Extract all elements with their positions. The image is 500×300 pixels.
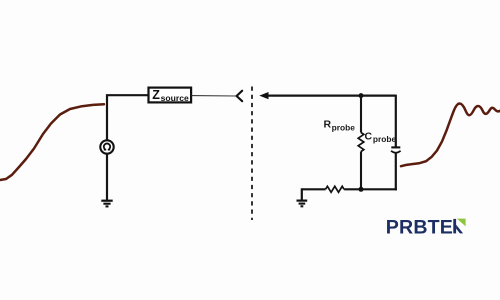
wire: Cprobe upper lead <box>395 95 397 147</box>
impedance Zsource (box) <box>149 88 192 103</box>
svg-text:source: source <box>161 93 189 103</box>
ground (left) <box>101 201 112 207</box>
probe input arrow (filled head) <box>259 92 268 99</box>
logo K green arm <box>457 219 466 227</box>
svg-text:Z: Z <box>152 88 160 102</box>
svg-text:R: R <box>324 119 332 131</box>
wire: right ground stub <box>301 188 303 200</box>
output waveform with ringing (right) <box>401 104 500 167</box>
wire: Rprobe upper lead <box>360 96 362 133</box>
resistor Rprobe (vertical zigzag) <box>358 133 364 152</box>
svg-text:C: C <box>365 130 373 142</box>
svg-text:probe: probe <box>332 122 356 132</box>
logo K stem <box>453 219 456 234</box>
svg-text:probe: probe <box>373 134 397 144</box>
svg-text:PRBTE: PRBTE <box>386 216 453 238</box>
wire: source to ground <box>106 154 108 200</box>
wire: corner from source node up and right to Zsource <box>107 95 149 141</box>
capacitor Cprobe <box>391 147 401 152</box>
wire: bottom rail right segment <box>344 188 397 190</box>
logo K leg <box>456 225 463 234</box>
resistor Rlead (horizontal zigzag, ground lead) <box>326 186 345 192</box>
wire: probe top line <box>268 94 396 96</box>
dashed boundary line <box>251 87 253 221</box>
wire: Rprobe lower lead <box>360 152 362 190</box>
omega symbol inside source V1 <box>104 143 110 149</box>
node junction (bottom) <box>359 187 364 192</box>
wire: bottom rail left segment (ground to resistor) <box>302 188 326 190</box>
input step waveform (left) <box>0 104 104 180</box>
node junction (top) <box>359 93 364 98</box>
wire: thin lead from Zsource to probe tip <box>192 95 237 97</box>
probe tip chevron <box>237 91 243 102</box>
wire: Cprobe lower lead <box>395 153 397 190</box>
ground (right) <box>297 201 308 207</box>
voltage source V1 (circle) <box>100 140 113 153</box>
